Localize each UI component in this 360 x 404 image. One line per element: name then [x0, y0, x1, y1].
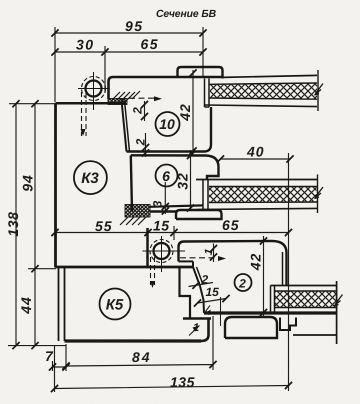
- break mark panel 2: [315, 187, 324, 199]
- small dimension 2 upper-b: [145, 133, 147, 157]
- support hatch strokes upper: [112, 91, 140, 100]
- hinge symbol lower: [143, 236, 186, 288]
- svg-text:15: 15: [206, 285, 220, 299]
- dimension row 55 15 65: [55, 226, 289, 240]
- svg-text:Сечение БВ: Сечение БВ: [156, 9, 217, 20]
- hatch panel 1: [210, 83, 317, 99]
- K5 right profile: [180, 268, 191, 319]
- dimension 32: [190, 150, 192, 211]
- svg-text:42: 42: [177, 103, 193, 122]
- svg-text:55: 55: [95, 218, 113, 234]
- svg-text:10: 10: [159, 116, 175, 132]
- dimension 30: [55, 51, 203, 53]
- sash block 10: [109, 67, 223, 152]
- callout circle 10: [156, 112, 180, 136]
- hinge symbol upper: [78, 72, 109, 136]
- dimension 138: [12, 100, 19, 107]
- hatch panel 2: [209, 187, 317, 202]
- bottom cap under block 2: [225, 317, 277, 338]
- svg-text:135: 135: [170, 374, 195, 390]
- svg-text:2: 2: [131, 107, 145, 115]
- svg-text:2: 2: [134, 138, 148, 146]
- callout circle K3: [74, 161, 107, 194]
- svg-text:44: 44: [18, 296, 34, 315]
- sill line under block 2: [204, 311, 337, 314]
- dimension 135: [55, 346, 289, 392]
- wall panel 3 (bottom right): [271, 286, 337, 315]
- support pad hatch lower: [125, 205, 150, 218]
- dimension 95: [55, 32, 203, 34]
- wall panel 1 (top right): [205, 70, 319, 111]
- svg-text:6: 6: [162, 168, 170, 184]
- svg-text:40: 40: [246, 144, 265, 160]
- svg-text:К5: К5: [106, 297, 124, 314]
- svg-text:138: 138: [5, 211, 21, 236]
- dimension 40: [221, 153, 291, 391]
- break mark panel 1: [315, 84, 324, 96]
- dimension 44: [31, 342, 38, 349]
- callout circle 6: [156, 165, 178, 187]
- leader arrow into sill corner: [206, 297, 221, 326]
- svg-text:65: 65: [222, 217, 240, 233]
- opening direction dashed arrow lower: [180, 256, 226, 261]
- dim extension lines left: [8, 104, 66, 346]
- support hatch strokes lower: [120, 217, 146, 225]
- dim extension lines top: [55, 27, 203, 102]
- small dimension 2 lower: [189, 283, 214, 287]
- dimension 7: [53, 344, 67, 371]
- callout circle 2: [235, 274, 252, 291]
- svg-text:15: 15: [153, 218, 170, 234]
- small dimension 2 upper-a: [144, 101, 146, 121]
- opening direction dashed arrow upper: [129, 96, 162, 101]
- svg-text:94: 94: [20, 174, 36, 192]
- small dimension 15 lower: [198, 299, 227, 304]
- svg-text:95: 95: [125, 18, 144, 34]
- hatch panel 3: [275, 292, 336, 308]
- svg-text:7: 7: [45, 348, 54, 364]
- svg-text:42: 42: [248, 253, 264, 272]
- dimension 94: [31, 100, 38, 107]
- frame block 6: [131, 155, 222, 219]
- dimension 42 upper: [192, 70, 194, 151]
- panel K5 bottom edge: [65, 339, 202, 342]
- panel K3 outline: [56, 103, 194, 267]
- dimension 42 lower: [263, 236, 265, 316]
- svg-text:К3: К3: [81, 170, 99, 187]
- wall panel 2 (middle right): [196, 175, 318, 214]
- svg-text:30: 30: [76, 37, 95, 53]
- small dimension 1 upper: [213, 244, 215, 263]
- svg-text:2: 2: [238, 277, 246, 291]
- drip profile: [280, 318, 296, 331]
- callout circle K5: [100, 289, 131, 320]
- lower wall line right: [293, 334, 337, 336]
- svg-text:84: 84: [132, 349, 152, 365]
- trim cap below block 6: [176, 210, 222, 219]
- dimension 84: [66, 316, 213, 370]
- small dimension 3: [164, 182, 166, 214]
- svg-text:65: 65: [141, 36, 160, 52]
- hinge pad hatch upper: [108, 99, 127, 105]
- break mark panel 3: [334, 295, 343, 307]
- svg-text:3: 3: [151, 200, 165, 207]
- sash block 2: [179, 241, 337, 344]
- panel K5 left edge: [59, 268, 212, 341]
